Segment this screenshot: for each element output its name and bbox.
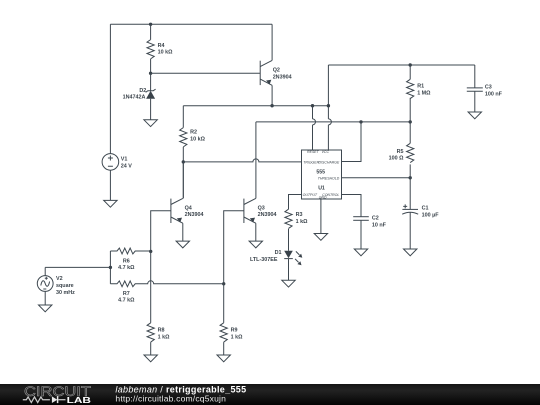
wire OUTPUT to R3 xyxy=(289,195,302,210)
svg-text:10 kΩ: 10 kΩ xyxy=(158,50,173,56)
resistor R6 xyxy=(110,248,150,271)
svg-text:1N4742A: 1N4742A xyxy=(123,95,146,101)
ground under D1 xyxy=(282,280,295,287)
ground under V2 xyxy=(39,305,52,312)
svg-text:R4: R4 xyxy=(158,43,165,49)
wire VCC top rail to C3 xyxy=(328,64,474,66)
wire R1 top stub xyxy=(409,65,411,79)
svg-text:100 nF: 100 nF xyxy=(485,92,503,98)
svg-text:100 Ω: 100 Ω xyxy=(389,156,404,162)
svg-text:1 kΩ: 1 kΩ xyxy=(296,219,308,225)
svg-text:C1: C1 xyxy=(422,206,429,212)
wire C1 bottom xyxy=(409,212,411,249)
resistor R5 xyxy=(389,143,414,162)
svg-text:C2: C2 xyxy=(372,216,379,222)
junction Q3 base riser / R7 xyxy=(222,282,225,285)
wire R9 bottom xyxy=(223,342,225,355)
svg-text:10 nF: 10 nF xyxy=(372,223,387,229)
wire C2 bottom xyxy=(360,220,362,249)
svg-text:555: 555 xyxy=(316,169,325,175)
junction top rail / R4 xyxy=(149,23,152,26)
svg-text:2N3904: 2N3904 xyxy=(273,75,292,81)
resistor R8 xyxy=(147,323,170,342)
svg-text:R5: R5 xyxy=(397,149,404,155)
transistor Q3 xyxy=(244,198,277,223)
wire Q3 base wire xyxy=(224,211,244,284)
svg-text:C3: C3 xyxy=(485,85,492,91)
resistor R2 xyxy=(180,128,206,147)
svg-text:R8: R8 xyxy=(158,327,165,333)
junction threshold / R5-C1 xyxy=(409,176,412,179)
wire Q4 base wire xyxy=(151,211,171,252)
resistor R1 xyxy=(407,79,432,98)
zener diode D2 xyxy=(123,88,156,100)
wire R5 to C1 xyxy=(409,164,411,209)
wire V1 top riser xyxy=(109,24,111,153)
ground under D2 xyxy=(144,120,157,127)
capacitor C3 xyxy=(467,85,503,98)
voltage source V1 xyxy=(102,154,132,171)
svg-text:V1: V1 xyxy=(121,156,128,162)
junction Q2 emitter / VCC net xyxy=(270,104,273,107)
ground under V1 xyxy=(104,200,117,207)
wire CONTROL to C2 xyxy=(342,195,362,217)
ground under Q4 xyxy=(176,241,189,248)
wire R9 riser xyxy=(223,284,225,323)
footer credit text xyxy=(115,385,246,404)
svg-text:OUTPUT: OUTPUT xyxy=(303,193,318,197)
svg-text:24 V: 24 V xyxy=(121,163,132,169)
svg-text:LAB: LAB xyxy=(67,395,91,405)
svg-text:1 kΩ: 1 kΩ xyxy=(231,334,243,340)
svg-text:THRESHOLD: THRESHOLD xyxy=(318,177,340,181)
wire R3 to D1 xyxy=(288,229,290,251)
wire THRESHOLD net xyxy=(342,177,411,179)
svg-text:R3: R3 xyxy=(296,212,303,218)
svg-text:LTL-307EE: LTL-307EE xyxy=(250,257,278,263)
svg-text:4.7 kΩ: 4.7 kΩ xyxy=(118,265,135,271)
svg-text:VCC: VCC xyxy=(322,150,330,154)
CircuitLab logo xyxy=(23,384,91,405)
transistor Q2 xyxy=(260,60,291,85)
wire C3 riser xyxy=(474,65,476,88)
wire D2 bottom stub xyxy=(150,99,152,120)
wire V2 bottom xyxy=(44,291,46,305)
wire Q3 emitter drop xyxy=(255,223,257,241)
junction RESET riser / VCC net xyxy=(311,104,314,107)
svg-text:2N3904: 2N3904 xyxy=(258,212,277,218)
wire Q4 collector riser xyxy=(182,162,184,199)
wire R8 bottom xyxy=(150,342,152,355)
svg-text:Q3: Q3 xyxy=(258,206,265,212)
wire RESET riser with hop xyxy=(313,106,316,150)
junction VCC rail / R1 xyxy=(409,63,412,66)
svg-text:http://circuitlab.com/cq5xujn: http://circuitlab.com/cq5xujn xyxy=(115,394,226,404)
resistor R4 xyxy=(147,40,173,59)
ground under Q3 xyxy=(249,241,262,248)
svg-text:GND: GND xyxy=(319,195,327,199)
wire R2 bottom riser xyxy=(182,147,184,162)
svg-text:4.7 kΩ: 4.7 kΩ xyxy=(118,298,135,304)
wire R4 bottom stub xyxy=(150,59,152,73)
wire Q2 collector riser xyxy=(271,24,273,60)
wire VCC riser with hop xyxy=(328,65,331,150)
junction R4 / D2 / Q2 base xyxy=(149,72,152,75)
svg-text:U1: U1 xyxy=(318,186,325,192)
svg-text:1 MΩ: 1 MΩ xyxy=(417,91,431,97)
ground under C3 xyxy=(468,112,481,119)
wire TRIGGER net xyxy=(183,159,301,162)
wire GND pin stub xyxy=(320,199,322,234)
wire Q2 emitter drop xyxy=(271,85,273,105)
junction R2 / trigger wire / Q4 collector xyxy=(182,160,185,163)
wire C3 bottom xyxy=(474,91,476,112)
wire Q3 collector riser with hop xyxy=(255,122,257,198)
junction Q4 base riser / R6 xyxy=(149,250,152,253)
junction discharge stub xyxy=(359,120,362,123)
wire top rail V1 to Q2 collector xyxy=(110,23,272,25)
svg-text:10 kΩ: 10 kΩ xyxy=(190,137,205,143)
svg-text:TRIGGER: TRIGGER xyxy=(303,161,319,165)
svg-text:R1: R1 xyxy=(417,84,424,90)
wire DISCHARGE net horizontal xyxy=(256,121,410,123)
voltage source V2 xyxy=(37,276,75,296)
svg-text:2N3904: 2N3904 xyxy=(185,212,204,218)
svg-text:Q4: Q4 xyxy=(185,206,192,212)
svg-text:R6: R6 xyxy=(123,258,130,264)
capacitor C2 xyxy=(353,216,386,229)
svg-text:D1: D1 xyxy=(275,250,282,256)
wire VCC net horizontal xyxy=(183,105,328,107)
svg-text:V2: V2 xyxy=(56,276,63,282)
wire discharge stub down-left to pin xyxy=(342,122,362,162)
wire R4 top stub xyxy=(150,24,152,39)
svg-text:Q2: Q2 xyxy=(273,68,280,74)
wire V2 top riser xyxy=(44,267,46,275)
svg-text:D2: D2 xyxy=(139,88,146,94)
wire R6-R7 left vertical xyxy=(109,251,111,284)
svg-text:square: square xyxy=(56,283,74,289)
svg-text:DISCHARGE: DISCHARGE xyxy=(318,161,339,165)
capacitor C1 polarized xyxy=(402,204,439,218)
wire V2 output xyxy=(45,266,110,268)
svg-text:30 mHz: 30 mHz xyxy=(56,290,75,296)
wire V1 bottom xyxy=(109,170,111,200)
wire D2 top stub xyxy=(150,73,152,90)
wire R2 top riser xyxy=(182,106,184,128)
resistor R7 xyxy=(110,281,223,304)
ground under R9 xyxy=(217,355,230,362)
svg-text:R9: R9 xyxy=(231,327,238,333)
junction VCC riser / VCC net xyxy=(327,104,330,107)
wire Q4 emitter drop xyxy=(182,223,184,241)
transistor Q4 xyxy=(171,162,204,223)
wire Q4 base riser to R8 with hop xyxy=(150,251,152,322)
wire Q2 base net xyxy=(151,72,261,74)
svg-text:1 kΩ: 1 kΩ xyxy=(158,334,170,340)
resistor R9 xyxy=(220,323,243,342)
LED D1 xyxy=(250,250,302,265)
wire R1 to R5 xyxy=(409,98,411,144)
ground under C2 xyxy=(354,249,367,256)
svg-text:RESET: RESET xyxy=(307,150,320,154)
svg-text:R2: R2 xyxy=(190,130,197,136)
svg-text:R7: R7 xyxy=(123,291,130,297)
ground under C1 xyxy=(404,249,417,256)
ground under U1 xyxy=(314,234,327,241)
footer bar xyxy=(0,384,540,405)
wire D1 bottom xyxy=(288,259,290,281)
ground under R8 xyxy=(144,355,157,362)
junction V2 wire xyxy=(109,266,112,269)
junction discharge / R1-R5 xyxy=(409,120,412,123)
resistor R3 xyxy=(285,209,308,228)
timer U1 555 xyxy=(302,150,342,199)
svg-text:100 µF: 100 µF xyxy=(422,213,440,219)
